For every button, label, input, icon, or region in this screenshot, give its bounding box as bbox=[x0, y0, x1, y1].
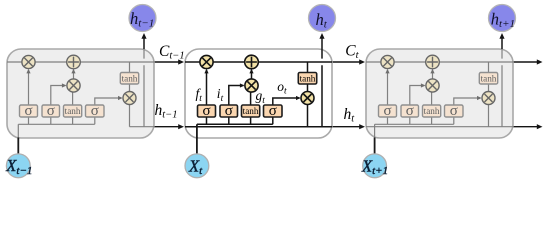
wire: cell-state line C through cell t-1 bbox=[7, 61, 154, 63]
wire: input X(t-1) stem up into cell bbox=[17, 138, 19, 154]
svg-text:σ: σ bbox=[24, 103, 32, 119]
wire: forget gate to multiply node, cell t bbox=[206, 70, 208, 105]
wire: gate stubs down to bus, cell t+1 bbox=[388, 117, 454, 124]
wire: input X stem inside cell t-1 bbox=[17, 124, 19, 138]
svg-text:σ: σ bbox=[202, 103, 210, 119]
wire: C(t+1) output arrow from right cell bbox=[513, 61, 537, 63]
wire: C line branch down through tanh to right multiply and h line, cell t+1 bbox=[488, 62, 490, 127]
wire: multiply node 2 up to add node, cell t-1 bbox=[73, 70, 75, 79]
sigma gate box (input) cell t-1 bbox=[42, 105, 60, 117]
svg-text:tanh: tanh bbox=[122, 73, 138, 83]
svg-text:ht−1: ht−1 bbox=[155, 102, 178, 121]
svg-text:σ: σ bbox=[406, 103, 414, 119]
LSTM cell body t bbox=[185, 49, 332, 138]
svg-text:σ: σ bbox=[383, 103, 391, 119]
wire: C line branch down through tanh to right multiply and h line, cell t bbox=[307, 62, 309, 127]
wire: input gate to multiply node 2, cell t bbox=[229, 86, 244, 106]
multiply node (output) cell t-1 bbox=[123, 92, 136, 105]
wire: h(t) from middle cell into right cell bbox=[332, 126, 360, 128]
svg-text:tanh: tanh bbox=[424, 106, 440, 116]
sigma gate box (output) cell t+1 bbox=[445, 105, 464, 117]
svg-text:Ct−1: Ct−1 bbox=[159, 43, 185, 62]
svg-text:σ: σ bbox=[225, 103, 233, 119]
wire: output gate to right multiply node, cell t bbox=[273, 98, 300, 105]
sigma gate box (forget) cell t+1 bbox=[379, 105, 397, 117]
wire: input X stem inside cell t+1 bbox=[374, 124, 376, 138]
tanh gate box (candidate) cell t bbox=[242, 105, 260, 117]
wire: hidden-state line through cell t+1 bbox=[366, 126, 513, 128]
svg-text:σ: σ bbox=[47, 103, 55, 119]
wire: hidden output branch up to h circle (gap where it crosses C line), cell t-1 bbox=[143, 49, 145, 127]
wire: gate stubs down to bus, cell t-1 bbox=[29, 117, 95, 124]
svg-text:tanh: tanh bbox=[243, 106, 259, 116]
svg-text:ht: ht bbox=[344, 106, 356, 125]
wire: forget gate to multiply node, cell t-1 bbox=[28, 70, 30, 105]
wire: h(t+1) output arrow from right cell bbox=[513, 126, 537, 128]
wire: input gate to multiply node 2, cell t-1 bbox=[51, 86, 66, 106]
node: hidden state output circle h(t-1) bbox=[129, 5, 156, 32]
wire: output gate to right multiply node, cell t-1 bbox=[95, 98, 122, 105]
multiply node (forget) cell t-1 bbox=[22, 55, 35, 68]
wire: hidden-state line through cell t-1 bbox=[130, 126, 155, 128]
wire: input gate to multiply node 2, cell t+1 bbox=[410, 86, 425, 106]
wire: multiply node 2 up to add node, cell t bbox=[251, 70, 253, 79]
wire: gate input bus line, cell t bbox=[197, 123, 273, 125]
tanh activation box on cell-state branch, cell t-1 bbox=[120, 73, 138, 85]
tanh activation box on cell-state branch, cell t+1 bbox=[479, 73, 497, 85]
sigma gate box (input) cell t+1 bbox=[401, 105, 419, 117]
wire: gate input bus line, cell t-1 bbox=[18, 123, 95, 125]
wire: gate stubs down to bus, cell t bbox=[207, 117, 273, 124]
add node cell t bbox=[245, 55, 259, 69]
svg-text:σ: σ bbox=[450, 103, 458, 119]
svg-text:tanh: tanh bbox=[481, 73, 497, 83]
wire: hidden-state line through cell t bbox=[185, 126, 332, 128]
wire: C(t) from middle cell into right cell bbox=[332, 61, 360, 63]
sigma gate box (output) cell t-1 bbox=[86, 105, 105, 117]
sigma gate box (forget) cell t-1 bbox=[20, 105, 38, 117]
node: input circle X(t+1) bbox=[363, 154, 387, 178]
multiply node (input x candidate) cell t+1 bbox=[426, 79, 439, 92]
wire: C line branch down through tanh to right multiply and h line, cell t-1 bbox=[129, 62, 131, 127]
node: input circle X(t-1) bbox=[6, 154, 30, 178]
wire: input X(t+1) stem up into cell bbox=[374, 138, 376, 154]
wire: multiply node 2 up to add node, cell t+1 bbox=[432, 70, 434, 79]
node: hidden state output circle h(t) bbox=[309, 5, 336, 32]
add node cell t+1 bbox=[426, 55, 440, 69]
multiply node (output) cell t bbox=[301, 92, 314, 105]
svg-text:Ct: Ct bbox=[345, 43, 359, 62]
add node cell t-1 bbox=[67, 55, 81, 69]
tanh gate box (candidate) cell t-1 bbox=[64, 105, 82, 117]
tanh gate box (candidate) cell t+1 bbox=[423, 105, 441, 117]
multiply node (output) cell t+1 bbox=[482, 92, 495, 105]
wire: cell-state line C through cell t+1 bbox=[366, 61, 513, 63]
multiply node (input x candidate) cell t-1 bbox=[67, 79, 80, 92]
multiply node (input x candidate) cell t bbox=[245, 79, 258, 92]
tanh activation box on cell-state branch, cell t bbox=[298, 73, 316, 85]
multiply node (forget) cell t+1 bbox=[381, 55, 394, 68]
wire: forget gate to multiply node, cell t+1 bbox=[387, 70, 389, 105]
node: input circle X(t) bbox=[185, 154, 209, 178]
svg-text:tanh: tanh bbox=[300, 73, 316, 83]
wire: cell-state line C through cell t bbox=[185, 61, 332, 63]
svg-text:σ: σ bbox=[91, 103, 99, 119]
wire: hidden output branch up to h circle (gap where it crosses C line), cell t+1 bbox=[501, 49, 503, 127]
wire: input X(t) stem up into cell bbox=[196, 138, 198, 154]
sigma gate box (input) cell t bbox=[220, 105, 238, 117]
wire: hidden output branch up to h circle (gap where it crosses C line), cell t bbox=[321, 36, 323, 127]
wire: output gate to right multiply node, cell t+1 bbox=[454, 98, 481, 105]
wire: candidate tanh gate up to multiply node 2, cell t-1 bbox=[72, 92, 74, 105]
wire: candidate tanh gate up to multiply node 2, cell t bbox=[250, 92, 252, 105]
wire: input X stem inside cell t bbox=[196, 124, 198, 138]
LSTM cell body t+1 bbox=[366, 49, 513, 138]
wire: gate input bus line, cell t+1 bbox=[375, 123, 454, 125]
wire: candidate tanh gate up to multiply node 2, cell t+1 bbox=[431, 92, 433, 105]
multiply node (forget) cell t bbox=[200, 55, 213, 68]
node: hidden state output circle h(t+1) bbox=[489, 5, 516, 32]
sigma gate box (output) cell t bbox=[264, 105, 283, 117]
wire: C(t-1) from left cell into middle cell bbox=[154, 61, 179, 63]
sigma gate box (forget) cell t bbox=[198, 105, 216, 117]
svg-text:σ: σ bbox=[269, 103, 277, 119]
LSTM cell body t-1 bbox=[7, 49, 154, 138]
svg-text:tanh: tanh bbox=[65, 106, 81, 116]
wire: h(t-1) from left cell into middle cell bbox=[154, 126, 179, 128]
